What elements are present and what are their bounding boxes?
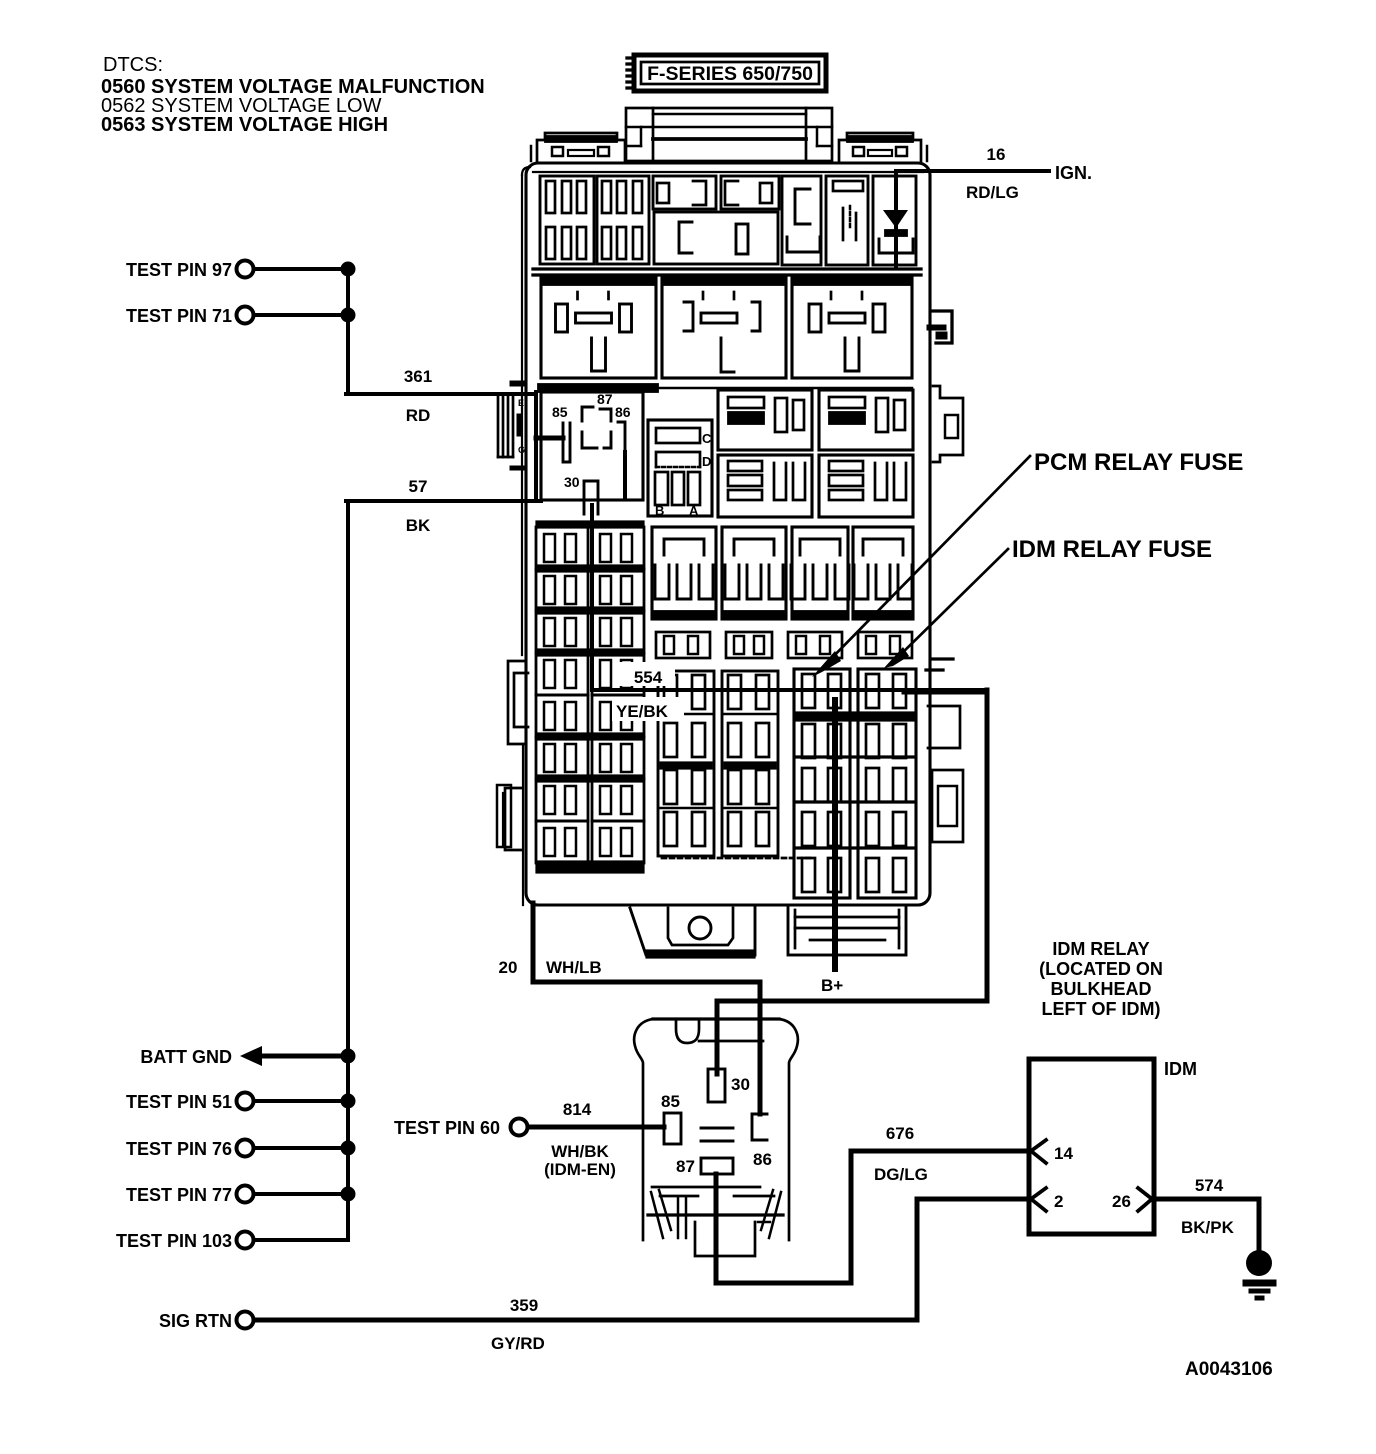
wire down to pin 30: [715, 1001, 720, 1074]
svg-text:57: 57: [409, 477, 428, 496]
svg-text:D: D: [702, 454, 711, 469]
svg-text:0563 SYSTEM VOLTAGE HIGH: 0563 SYSTEM VOLTAGE HIGH: [101, 114, 388, 136]
wire right vertical: [985, 690, 990, 1001]
fuse row 1 cell 6: [826, 176, 868, 265]
wire 814: [528, 1125, 664, 1130]
wire IGN: [897, 169, 1049, 173]
svg-text:359: 359: [510, 1296, 538, 1315]
left edge connector upper: [498, 381, 525, 470]
PCM relay fuse column: [794, 669, 850, 898]
IDM pin 26 chevron: [1138, 1188, 1152, 1211]
bottom right tab ladder: [788, 905, 906, 955]
wire horizontal to pin 30: [717, 999, 987, 1004]
IDM module box: [1029, 1059, 1154, 1234]
terminal TEST PIN 51: [237, 1093, 254, 1110]
svg-text:C: C: [702, 431, 712, 446]
svg-text:85: 85: [552, 404, 568, 420]
svg-text:B+: B+: [821, 976, 843, 995]
IDM relay outline: [634, 1019, 798, 1240]
relay cell 1: [541, 278, 656, 378]
wire 361 stub to pin 85: [536, 436, 563, 441]
wire IDM fuse right: [904, 690, 987, 695]
wire TEST PIN 103: [254, 1238, 348, 1242]
svg-text:814: 814: [563, 1100, 592, 1119]
svg-text:16: 16: [987, 145, 1006, 164]
junction dot 71: [341, 308, 356, 323]
IDM relay coil: [701, 1128, 733, 1141]
right edge mark mid: [926, 659, 953, 670]
svg-text:A0043106: A0043106: [1185, 1359, 1273, 1380]
svg-text:E: E: [518, 398, 524, 408]
relay cell 2: [662, 278, 786, 378]
IDM relay pin 87: [701, 1158, 733, 1174]
fuse block row3 B: [819, 390, 913, 450]
arrow to PCM relay fuse: [812, 456, 1030, 677]
batt gnd arrow: [240, 1046, 262, 1066]
wire TEST PIN 77: [254, 1192, 348, 1196]
wire TEST PIN 51: [254, 1099, 348, 1103]
svg-text:WH/BK: WH/BK: [551, 1142, 609, 1161]
PCM relay pin 30: [584, 481, 598, 514]
fuse block row3 A: [718, 390, 812, 450]
left edge connector tab B: [497, 785, 522, 850]
fuse row 1 cell 4: [721, 176, 779, 209]
fuse box right top clamp: [839, 133, 927, 161]
svg-text:87: 87: [676, 1157, 695, 1176]
right edge connector mid: [928, 706, 960, 748]
fuse box left top clamp: [531, 133, 625, 161]
fuse row 1 wide relay cavity: [654, 212, 778, 264]
svg-text:YE/BK: YE/BK: [616, 702, 669, 721]
wire 57 BK: [346, 499, 541, 503]
test pin 71 terminal: [237, 307, 254, 324]
wire pin 86 down: [623, 452, 627, 498]
fuse block row5 3: [791, 527, 849, 619]
left fuse strip: [536, 521, 644, 873]
junction dot TEST PIN 76: [341, 1141, 356, 1156]
svg-text:RD/LG: RD/LG: [966, 183, 1019, 202]
svg-text:TEST PIN 76: TEST PIN 76: [126, 1139, 232, 1159]
svg-text:20: 20: [499, 958, 518, 977]
PCM relay pin 86: [618, 422, 625, 452]
PCM relay pin 87 bracket: [582, 407, 611, 421]
wire 20 WH/LB: [533, 903, 760, 1114]
wire 361 RD: [346, 392, 533, 396]
junction dot batt gnd: [341, 1049, 356, 1064]
svg-text:G: G: [518, 445, 525, 455]
label 554: [615, 662, 675, 687]
right edge connector upper: [933, 386, 963, 462]
terminal TEST PIN 103: [237, 1232, 254, 1249]
heavy bar under relay fuses: [794, 712, 916, 721]
wire bus vertical lower: [346, 501, 350, 1240]
IDM relay fuse column: [858, 669, 916, 898]
fuse block row4 A: [718, 455, 812, 517]
separator band under row 1: [533, 269, 921, 275]
PCM relay cell outline: [536, 392, 643, 500]
diode cell: [873, 176, 916, 265]
terminal TEST PIN 60: [511, 1119, 528, 1136]
svg-text:DTCS:: DTCS:: [103, 54, 163, 76]
wire diode vertical: [894, 171, 898, 268]
svg-text:361: 361: [404, 367, 432, 386]
wire bus vertical upper: [346, 269, 350, 394]
wire 574 BK/PK: [1154, 1199, 1259, 1252]
IDM pin 2 chevron: [1031, 1188, 1046, 1211]
terminal TEST PIN 77: [237, 1186, 254, 1203]
svg-text:676: 676: [886, 1124, 914, 1143]
svg-text:87: 87: [597, 391, 613, 407]
IDM relay pin 30: [708, 1069, 725, 1102]
diode symbol: [883, 210, 908, 236]
svg-text:GY/RD: GY/RD: [491, 1334, 545, 1353]
junction dot TEST PIN 77: [341, 1187, 356, 1202]
svg-text:TEST PIN 103: TEST PIN 103: [116, 1231, 232, 1251]
IDM relay socket base: [648, 1187, 783, 1256]
svg-text:A: A: [689, 503, 699, 518]
fuse box top tower: [626, 108, 832, 161]
fuse row 1 cell 1: [540, 176, 594, 264]
svg-text:BK: BK: [406, 516, 431, 535]
svg-text:554: 554: [634, 668, 663, 687]
right edge connector relay level: [927, 311, 952, 343]
svg-text:30: 30: [731, 1075, 750, 1094]
svg-text:RD: RD: [406, 406, 431, 425]
svg-text:B: B: [655, 503, 664, 518]
fuse row 1 cell 5: [782, 176, 821, 265]
fuse row 1 cell 3: [653, 176, 716, 209]
svg-text:LEFT OF IDM): LEFT OF IDM): [1042, 999, 1161, 1019]
fuse box outer shell: [522, 163, 930, 905]
title box F-SERIES 650/750: [627, 55, 826, 91]
svg-text:TEST PIN 77: TEST PIN 77: [126, 1185, 232, 1205]
wire relay 87 to IDM pin 14: [716, 1151, 1029, 1283]
separator band under relay row: [538, 384, 658, 392]
PCM relay pin 85: [563, 423, 570, 462]
svg-text:WH/LB: WH/LB: [546, 958, 602, 977]
svg-text:2: 2: [1054, 1192, 1063, 1211]
fuse block row5 2: [722, 527, 786, 619]
svg-text:PCM RELAY FUSE: PCM RELAY FUSE: [1034, 449, 1243, 476]
svg-text:IDM RELAY: IDM RELAY: [1052, 939, 1149, 959]
bottom tab with circle: [630, 908, 755, 958]
IDM relay note: [1039, 939, 1163, 1019]
relay cell 3: [792, 278, 912, 378]
svg-text:IDM: IDM: [1164, 1059, 1197, 1079]
fuse block row4 B: [819, 455, 913, 517]
middle fuse columns: [658, 671, 812, 858]
svg-text:86: 86: [753, 1150, 772, 1169]
svg-text:BK/PK: BK/PK: [1181, 1218, 1235, 1237]
svg-text:F-SERIES 650/750: F-SERIES 650/750: [647, 63, 813, 85]
svg-text:SIG RTN: SIG RTN: [159, 1311, 232, 1331]
small fuse row: [656, 632, 912, 658]
arrow to IDM relay fuse: [884, 549, 1008, 668]
svg-text:BATT GND: BATT GND: [140, 1047, 232, 1067]
svg-text:DG/LG: DG/LG: [874, 1165, 928, 1184]
terminal TEST PIN 76: [237, 1140, 254, 1157]
IDM relay pin 85: [664, 1113, 681, 1144]
fuse block row5 4: [853, 527, 913, 619]
wire 554 vertical from PCM relay: [590, 505, 594, 690]
DTC codes text block: [101, 54, 485, 136]
svg-text:BULKHEAD: BULKHEAD: [1051, 979, 1152, 999]
svg-text:IGN.: IGN.: [1055, 163, 1092, 183]
label YE/BK: [612, 697, 684, 721]
left edge connector tab A: [508, 661, 528, 905]
svg-text:IDM RELAY FUSE: IDM RELAY FUSE: [1012, 536, 1212, 563]
wire test pin 97: [254, 267, 348, 271]
wire 554 horizontal: [592, 688, 987, 692]
IDM relay pin 86: [752, 1114, 767, 1140]
wire batt gnd: [258, 1054, 348, 1059]
terminal SIG RTN: [237, 1312, 254, 1329]
svg-text:14: 14: [1054, 1144, 1073, 1163]
IDM pin 14 chevron: [1031, 1140, 1046, 1163]
test pin 97 terminal: [237, 261, 254, 278]
right edge connector lower: [932, 770, 963, 842]
junction dot 97: [341, 262, 356, 277]
svg-text:85: 85: [661, 1092, 680, 1111]
svg-text:86: 86: [615, 404, 631, 420]
svg-text:TEST PIN 51: TEST PIN 51: [126, 1092, 232, 1112]
junction dot TEST PIN 51: [341, 1094, 356, 1109]
svg-text:TEST PIN 60: TEST PIN 60: [394, 1118, 500, 1138]
svg-text:26: 26: [1112, 1192, 1131, 1211]
svg-text:(LOCATED ON: (LOCATED ON: [1039, 959, 1163, 979]
svg-text:574: 574: [1195, 1176, 1224, 1195]
svg-text:TEST PIN 97: TEST PIN 97: [126, 260, 232, 280]
ground symbol: [1243, 1250, 1276, 1300]
wire B+ feed: [832, 700, 838, 969]
fuse block row5 1: [652, 527, 716, 619]
svg-text:30: 30: [564, 474, 580, 490]
connector block C D B A: [648, 420, 712, 518]
separator bars right columns: [796, 757, 914, 848]
wire TEST PIN 76: [254, 1146, 348, 1150]
svg-text:(IDM-EN): (IDM-EN): [544, 1160, 616, 1179]
wire 359 GY/RD: [254, 1199, 1029, 1320]
fuse row 1 cell 2: [597, 176, 649, 264]
wire test pin 71: [254, 313, 348, 317]
svg-text:TEST PIN 71: TEST PIN 71: [126, 306, 232, 326]
